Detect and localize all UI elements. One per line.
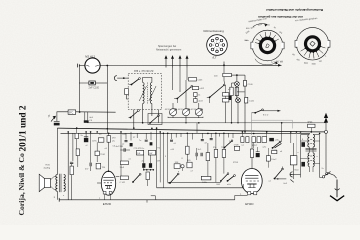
wire — [225, 85, 227, 93]
core (dashed) — [146, 83, 148, 104]
transformer T2 sec b — [313, 135, 315, 147]
output transformer T1 secondary — [64, 175, 66, 192]
resistor R33 — [250, 149, 253, 157]
bottom corner link — [151, 196, 156, 200]
svg-text:1: 1 — [216, 41, 217, 43]
wire — [185, 118, 187, 123]
wire — [79, 83, 81, 112]
svg-text:C140: C140 — [248, 84, 254, 86]
wire — [133, 110, 135, 129]
measurement arrows — [165, 56, 167, 68]
variable capacitor CV2 — [183, 109, 190, 116]
variable capacitor CV1 — [170, 109, 177, 116]
wire — [77, 156, 79, 167]
rotary wafer switch W1 — [252, 30, 283, 61]
svg-text:4/C10: 4/C10 — [178, 109, 184, 111]
resistor R20 1D8 — [174, 164, 180, 169]
svg-text:80M: 80M — [304, 63, 308, 65]
svg-text:DK: DK — [137, 153, 141, 155]
svg-text:129C: 129C — [92, 140, 97, 142]
resistor R2 — [125, 89, 129, 95]
bus junction dots — [67, 131, 69, 133]
svg-text:von der Rückseite aus gesehen: von der Rückseite aus gesehen — [258, 15, 303, 19]
svg-text:EH2D: EH2D — [245, 202, 254, 206]
resistor R14 — [107, 136, 111, 143]
tube V1 electrodes — [103, 177, 113, 180]
earth arrow — [336, 180, 338, 198]
capacitor C14 — [196, 153, 197, 156]
svg-text:13nF: 13nF — [120, 167, 125, 169]
wire — [231, 96, 233, 123]
resistor R18 LW — [148, 150, 155, 155]
tube V2 electrodes — [245, 175, 258, 178]
resistor R10 — [70, 166, 73, 175]
capacitor C17 (electrolytic) — [256, 153, 260, 157]
wire — [236, 75, 238, 81]
resistor R9 — [245, 97, 248, 103]
switch S2 — [177, 86, 192, 98]
svg-text:2x: 2x — [322, 168, 324, 170]
switch S9 — [228, 176, 235, 181]
svg-text:4spStg: 4spStg — [44, 166, 51, 169]
svg-text:2TD 9TD1 x: 2TD 9TD1 x — [134, 148, 145, 150]
resistor R35 — [272, 150, 277, 153]
rotation arrow W1 — [253, 24, 267, 27]
fuse F1 — [308, 124, 315, 127]
resistor R27 — [241, 137, 244, 143]
resistor R25 3Ta — [214, 149, 218, 157]
resistor R3 — [192, 87, 198, 90]
transformer T2 core — [306, 148, 317, 151]
connector J1 circle — [85, 58, 100, 73]
svg-text:Röhrenfassung: Röhrenfassung — [204, 29, 225, 33]
svg-text:1500: 1500 — [312, 64, 316, 66]
wire — [232, 83, 237, 87]
switch S1b — [131, 111, 139, 118]
hline 188 — [157, 187, 244, 189]
svg-text:12m2: 12m2 — [271, 159, 277, 161]
bottom bus — [59, 199, 235, 201]
wire — [320, 177, 323, 179]
switch S6 — [170, 174, 178, 183]
resistor R29 — [252, 137, 256, 143]
rotary wafer switch W2 — [296, 28, 328, 60]
wire — [266, 132, 268, 137]
svg-text:1k: 1k — [198, 95, 200, 97]
wire — [282, 167, 284, 170]
svg-text:3TB u. 3TC 90 kHz: 3TB u. 3TC 90 kHz — [134, 71, 154, 73]
capacitor C10 13nF — [120, 161, 128, 165]
capacitor C15 — [201, 153, 202, 156]
svg-text:BTDT: BTDT — [252, 145, 258, 147]
svg-text:Netz: Netz — [295, 169, 299, 172]
capacitor C18 box — [290, 156, 297, 165]
capacitor C8 4n7 — [90, 163, 91, 167]
wire — [162, 133, 164, 188]
wire — [293, 143, 295, 156]
capacitor C203 — [189, 78, 197, 82]
lamp LP1 — [235, 82, 240, 87]
svg-text:C141: C141 — [249, 101, 255, 103]
wire — [56, 191, 58, 200]
wire — [120, 149, 124, 151]
resistor R31 — [262, 137, 266, 143]
svg-text:4: 4 — [214, 47, 215, 49]
wire — [143, 78, 152, 83]
svg-text:EH2D: EH2D — [103, 202, 112, 206]
variable capacitor CV3 — [195, 109, 202, 116]
capacitor C7 (electrolytic) — [84, 138, 88, 142]
svg-text:9TD: 9TD — [157, 148, 161, 150]
svg-text:6: 6 — [219, 47, 220, 49]
capacitor C19 (electrolytic) — [301, 142, 305, 147]
svg-text:TA: TA — [48, 114, 51, 117]
capacitor blob — [130, 143, 133, 146]
svg-text:5: 5 — [216, 49, 217, 51]
capacitor C5 — [222, 93, 229, 96]
svg-text:Bedienungsknöpfe und Wellensch: Bedienungsknöpfe und Wellenschalter — [265, 8, 323, 12]
capacitor C3 4n5 — [84, 120, 89, 123]
resistor R1 9TC box — [68, 110, 76, 114]
tube V2 pins — [248, 192, 251, 195]
resistor R19 — [146, 172, 149, 180]
resistor R6 — [222, 99, 229, 102]
resistor R26 TDB — [222, 149, 226, 157]
hline 182 — [168, 181, 221, 183]
switch S7 — [221, 174, 228, 181]
wire — [159, 132, 161, 183]
wire — [198, 103, 200, 109]
svg-text:Netzanschl. gemessen: Netzanschl. gemessen — [156, 49, 182, 52]
svg-text:4/C10: 4/C10 — [191, 109, 197, 111]
svg-text:m5s: m5s — [227, 184, 231, 186]
switch S1a — [132, 79, 140, 85]
shield box (dashed) — [128, 74, 161, 110]
svg-text:a/4C: a/4C — [275, 140, 280, 142]
resistor R12 — [76, 149, 79, 156]
capacitor C13 (electrolytic) — [149, 163, 152, 168]
wire — [156, 128, 158, 188]
wire — [142, 104, 144, 123]
output transformer T1 core — [60, 174, 61, 192]
wire — [185, 80, 187, 109]
capacitor C1 2nF — [89, 81, 95, 85]
tube V1 envelope — [101, 171, 115, 195]
svg-text:a/C: a/C — [112, 141, 116, 143]
wire — [223, 62, 225, 66]
wire with arrow — [263, 110, 281, 112]
svg-text:n: n — [298, 152, 299, 154]
wire — [95, 82, 107, 84]
bus (earth line) — [87, 122, 327, 124]
wire — [158, 110, 160, 123]
wire — [172, 103, 174, 109]
gray wire — [251, 113, 253, 135]
gray wire 2 — [252, 120, 293, 128]
switch S12 — [225, 141, 233, 148]
resistor R30 — [257, 137, 261, 143]
wire — [244, 75, 246, 80]
wire — [144, 169, 154, 171]
tube socket U1 top view — [207, 35, 228, 56]
wire — [108, 133, 110, 135]
wire — [72, 133, 74, 161]
wire — [120, 132, 122, 161]
tick — [146, 200, 148, 203]
resistor R15 TD41 — [95, 151, 99, 156]
svg-text:a2C: a2C — [263, 147, 267, 149]
capacitor C11 C142 — [120, 176, 128, 180]
resistor R7 — [223, 73, 232, 76]
terminal on bus — [325, 130, 328, 133]
switch S3 — [210, 85, 225, 97]
wire — [90, 132, 92, 163]
resistor R28 — [246, 137, 249, 143]
svg-text:Corija, Niwil & Co: Corija, Niwil & Co — [17, 153, 26, 216]
coil L2 — [150, 83, 152, 104]
wire — [51, 176, 57, 179]
capacitor C9 4n — [124, 148, 125, 152]
tube V2 envelope — [241, 169, 262, 194]
svg-text:a.C: a.C — [228, 89, 232, 91]
resistor R8 — [243, 81, 246, 87]
svg-text:aus: aus — [246, 40, 249, 42]
wire gang bottom — [168, 116, 203, 119]
wire — [76, 111, 116, 113]
wire — [79, 65, 85, 67]
tube V1 pins — [103, 191, 106, 194]
resistor R4 — [194, 93, 198, 97]
wire — [325, 133, 327, 172]
switch S4 — [255, 110, 262, 113]
svg-text:Spannungen bei: Spannungen bei — [158, 45, 177, 48]
wire stubs under bus — [125, 133, 127, 139]
wire — [107, 64, 281, 66]
wire — [172, 68, 174, 91]
terminal tick — [58, 198, 60, 202]
wire — [71, 175, 73, 200]
resistor R34 12m2 — [266, 156, 270, 161]
wire — [100, 65, 107, 67]
resistor R21 — [187, 162, 192, 168]
capacitor C6 — [70, 162, 73, 163]
transformer T2 sec a — [308, 135, 310, 147]
bus (chassis) — [57, 128, 326, 132]
wire — [209, 97, 211, 103]
trim cap CT1 — [181, 165, 184, 168]
junction dots row — [143, 169, 145, 171]
resistor R5 — [194, 99, 198, 103]
resistor R16 TD4 — [96, 163, 101, 169]
capacitor C2 (electrolytic) — [54, 123, 60, 126]
wire — [313, 135, 320, 178]
svg-text:2: 2 — [214, 42, 215, 44]
terminal T1 ticks — [78, 64, 80, 68]
svg-text:7: 7 — [220, 45, 221, 47]
wire — [231, 74, 245, 76]
capacitor C16 (dark) — [269, 138, 274, 141]
resistor R13 129C — [98, 138, 104, 142]
trim arrow L2 — [149, 86, 156, 101]
coil L1 — [143, 83, 145, 104]
wire — [106, 66, 108, 134]
wire — [308, 147, 310, 153]
wire — [179, 68, 181, 93]
wire — [56, 119, 58, 122]
small capacitors under bus — [125, 141, 128, 142]
switch S8 — [273, 142, 281, 148]
resistor R22 120k — [201, 176, 211, 180]
resistor R17 DK — [137, 150, 144, 155]
wire — [96, 142, 98, 151]
wire to earth — [328, 173, 337, 178]
bus (B+ line) — [61, 132, 311, 134]
svg-text:8: 8 — [219, 42, 220, 44]
resistor R24 — [206, 153, 210, 161]
svg-text:C 142: C 142 — [120, 182, 126, 184]
wire — [151, 104, 153, 117]
resistor R23 — [186, 146, 190, 154]
wire — [301, 135, 310, 178]
output transformer T1 primary — [56, 175, 58, 192]
wire — [167, 133, 169, 182]
wire — [186, 68, 188, 81]
jack J2 — [114, 76, 117, 81]
wire — [56, 128, 58, 175]
transformer T2 pri a — [308, 153, 310, 167]
switch S1c — [148, 114, 162, 125]
wire — [127, 95, 129, 99]
switch S5 — [133, 174, 140, 182]
tube V1 top lead — [108, 170, 110, 172]
capacitor C20 (electrolytic) — [301, 162, 305, 167]
speaker LS1 — [39, 174, 44, 191]
switch S10 — [275, 169, 283, 179]
wire — [308, 167, 310, 173]
resistor R32 1TD8 — [234, 146, 239, 150]
pickup arrow — [51, 116, 56, 121]
svg-text:B 1 D: B 1 D — [263, 115, 269, 117]
oscillator coil L3 — [230, 87, 233, 95]
svg-text:201/1 und 2: 201/1 und 2 — [19, 105, 29, 151]
arrow to wafer — [278, 64, 281, 67]
lamp LP2 — [236, 98, 241, 103]
switch S11 (mains) — [322, 176, 324, 178]
wire — [51, 186, 57, 189]
svg-text:5F06: 5F06 — [308, 122, 314, 124]
transformer T2 pri b — [313, 153, 315, 167]
wire — [79, 66, 89, 84]
capacitor C12 (electrolytic) — [142, 163, 145, 168]
resistor R11 — [75, 133, 78, 138]
wire — [176, 99, 178, 104]
wire — [293, 173, 301, 175]
svg-text:1W: 1W — [157, 161, 160, 163]
wire — [295, 132, 297, 155]
wire — [243, 184, 245, 188]
svg-text:4n/C143: 4n/C143 — [116, 146, 124, 148]
wire — [67, 132, 69, 200]
svg-text:9TC: 9TC — [69, 112, 74, 114]
dial arrow — [324, 114, 327, 123]
trim arrow L1 — [139, 86, 146, 101]
svg-text:4/C10: 4/C10 — [165, 109, 171, 111]
svg-text:2nF C100: 2nF C100 — [89, 87, 100, 90]
mains plug — [290, 172, 293, 177]
wire — [194, 96, 196, 98]
wire — [57, 112, 68, 119]
node A — [106, 65, 108, 67]
